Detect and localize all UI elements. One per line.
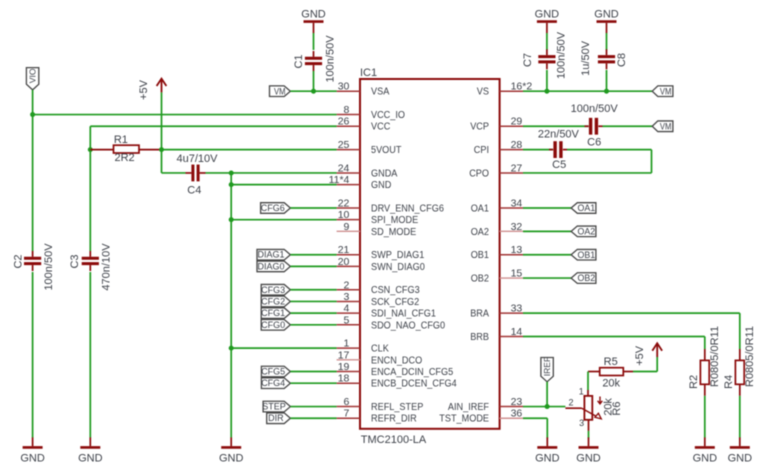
IC1 pin 1 CLK <box>337 338 390 355</box>
svg-text:OB1: OB1 <box>471 250 490 261</box>
svg-text:36: 36 <box>511 408 523 420</box>
ground below R6 <box>576 437 601 464</box>
wire +5V down to 5VOUT row <box>161 92 163 149</box>
svg-text:GND: GND <box>728 453 753 465</box>
svg-text:CPI: CPI <box>474 145 489 156</box>
supply +5V arrow (left) <box>138 79 166 100</box>
IC1 pin 2 CSN_CFG3 <box>337 279 420 296</box>
wire BRA <box>523 312 740 314</box>
svg-text:STEP: STEP <box>262 402 286 412</box>
capacitor C1 100n/50V <box>305 51 322 71</box>
net flag VM (left) <box>270 86 291 97</box>
wire +5V column down <box>161 150 163 173</box>
node junction R1 right / +5V <box>159 147 164 152</box>
IC1 pin 13 OB1 <box>471 244 523 261</box>
node junction GND row <box>229 182 234 187</box>
wire C3 to GND <box>89 272 91 438</box>
svg-text:CPO: CPO <box>469 168 489 179</box>
svg-text:SWN_DIAG0: SWN_DIAG0 <box>371 262 425 273</box>
svg-text:VM: VM <box>274 86 286 96</box>
IC1 pin 24 GNDA <box>337 162 398 179</box>
svg-text:DIAG0: DIAG0 <box>257 261 284 271</box>
ground above C1 <box>301 9 326 33</box>
node junction C1/VSA <box>311 89 316 94</box>
ground below R4 <box>728 437 753 464</box>
svg-text:IC1: IC1 <box>360 67 377 79</box>
svg-text:TST_MODE: TST_MODE <box>439 414 489 425</box>
svg-text:R1: R1 <box>114 134 128 146</box>
node junction SPI_MODE row <box>229 217 234 222</box>
node junction C7/VS <box>544 89 549 94</box>
svg-text:R5: R5 <box>604 356 618 368</box>
svg-text:VCP: VCP <box>470 122 489 133</box>
wire +5V to R5 row <box>656 357 658 372</box>
svg-text:VS: VS <box>477 87 489 98</box>
svg-text:19: 19 <box>338 361 350 373</box>
IC1 pin 30 VSA <box>337 81 390 98</box>
svg-text:OA2: OA2 <box>577 226 595 236</box>
svg-text:REFR_DIR: REFR_DIR <box>371 414 417 425</box>
net flag DIR <box>267 413 291 424</box>
net flag VM (VS row) <box>652 86 673 97</box>
IC1 pin 36 TST_MODE <box>439 408 523 425</box>
svg-text:R6: R6 <box>611 402 623 416</box>
net flag STEP <box>262 401 290 412</box>
ground below TST_MODE <box>535 437 560 464</box>
wire C8 to VS row <box>606 70 608 91</box>
svg-text:29: 29 <box>511 116 523 128</box>
wire GND column x231 <box>230 173 232 438</box>
wire TST_MODE down <box>546 418 548 438</box>
svg-text:R4: R4 <box>723 375 735 389</box>
svg-text:CFG4: CFG4 <box>261 378 285 388</box>
svg-text:VM: VM <box>660 121 672 131</box>
svg-text:GND: GND <box>78 453 103 465</box>
capacitor C2 <box>24 251 41 271</box>
svg-text:+5V: +5V <box>138 79 150 100</box>
svg-text:7: 7 <box>344 408 350 420</box>
svg-text:CFG0: CFG0 <box>261 320 285 330</box>
net flag CFG3 <box>261 284 290 295</box>
svg-text:SWP_DIAG1: SWP_DIAG1 <box>371 250 425 261</box>
svg-text:24: 24 <box>338 162 350 174</box>
node junction VIO/VCC_IO <box>30 112 35 117</box>
wire C7 to VS row <box>546 70 548 91</box>
svg-text:25: 25 <box>338 139 350 151</box>
wire R5 to +5V col <box>633 371 657 373</box>
svg-text:GND: GND <box>535 9 560 21</box>
wire VS row <box>523 90 652 92</box>
IC1 pin 3 SCK_CFG2 <box>337 291 420 308</box>
svg-text:10: 10 <box>338 209 350 221</box>
wire CFG1 to pin <box>290 312 336 314</box>
wire VCP to C6 <box>523 125 589 127</box>
svg-text:OA2: OA2 <box>471 227 490 238</box>
svg-text:3: 3 <box>344 291 350 303</box>
node junction C8/VS <box>604 89 609 94</box>
svg-text:BRA: BRA <box>470 309 489 320</box>
IC1 pin 26 VCC <box>337 116 391 133</box>
svg-text:DRV_ENN_CFG6: DRV_ENN_CFG6 <box>371 203 444 214</box>
svg-text:IREF: IREF <box>542 357 552 377</box>
wire AIN_IREF row <box>523 406 565 408</box>
wire SPI_MODE row <box>231 219 336 221</box>
svg-text:GND: GND <box>576 453 601 465</box>
wire CFG4 to pin <box>290 382 336 384</box>
IC1 pin 34 OA1 <box>471 198 523 215</box>
svg-text:OB2: OB2 <box>471 274 490 285</box>
svg-text:CFG2: CFG2 <box>261 296 285 306</box>
net flag VIO <box>26 68 38 90</box>
svg-text:13: 13 <box>511 244 523 256</box>
wire CPI loop down <box>651 150 653 173</box>
net flag CFG4 <box>261 378 290 389</box>
svg-text:30: 30 <box>338 81 350 93</box>
net flag DIAG0 <box>257 261 290 272</box>
svg-text:ENCA_DCIN_CFG5: ENCA_DCIN_CFG5 <box>371 367 454 378</box>
net flag CFG5 <box>261 366 290 377</box>
svg-text:21: 21 <box>338 244 350 256</box>
net flag IREF <box>541 357 553 382</box>
net flag OA2 <box>571 226 596 237</box>
svg-text:VIO: VIO <box>28 68 38 83</box>
svg-text:DIR: DIR <box>268 413 284 423</box>
node junction GNDA row <box>229 170 234 175</box>
wire 5VOUT row <box>162 149 337 151</box>
svg-text:2R2: 2R2 <box>115 152 135 164</box>
supply +5V arrow (right) <box>634 343 662 365</box>
svg-text:34: 34 <box>511 198 523 210</box>
svg-text:SPI_MODE: SPI_MODE <box>371 215 418 226</box>
wire C6 to VM <box>603 125 653 127</box>
wire BRB <box>523 335 705 337</box>
resistor R4 R0805/0R11 <box>723 326 756 396</box>
capacitor C5 22n/50V <box>538 128 580 171</box>
svg-text:27: 27 <box>511 162 523 174</box>
net flag OA1 <box>571 203 596 214</box>
wire VM to VSA pin <box>290 90 336 92</box>
wire OB2 <box>523 277 571 279</box>
wire CPO row <box>523 172 652 174</box>
svg-text:CSN_CFG3: CSN_CFG3 <box>371 285 420 296</box>
svg-text:26: 26 <box>338 116 350 128</box>
wire OA1 <box>523 207 571 209</box>
svg-text:2: 2 <box>568 398 573 408</box>
svg-text:6: 6 <box>344 396 350 408</box>
svg-text:ENCB_DCEN_CFG4: ENCB_DCEN_CFG4 <box>371 379 457 390</box>
IC1 pin 20 SWN_DIAG0 <box>337 256 426 273</box>
svg-text:OA1: OA1 <box>577 203 595 213</box>
wire OB1 <box>523 254 571 256</box>
IC1 pin 7 REFR_DIR <box>337 408 417 425</box>
svg-text:CFG6: CFG6 <box>261 203 285 213</box>
IC1 pin 22 DRV_ENN_CFG6 <box>337 198 445 215</box>
IC IC1 TMC2100-LA body <box>360 67 500 446</box>
ground below C3 <box>78 437 103 464</box>
wire C4 to junction <box>206 172 232 174</box>
svg-text:1: 1 <box>344 338 350 350</box>
wire R6 pin3 to GND <box>588 431 590 438</box>
svg-text:3: 3 <box>579 418 584 428</box>
net flag CFG2 <box>261 296 290 307</box>
wire R2 to GND <box>704 396 706 438</box>
node junction R1 left <box>88 147 93 152</box>
wire CFG6 to pin <box>290 207 336 209</box>
IC1 pin 5 SDO_NAO_CFG0 <box>337 314 446 331</box>
svg-text:R0805/0R11: R0805/0R11 <box>744 326 756 387</box>
capacitor C3 <box>82 251 99 271</box>
svg-text:8: 8 <box>344 104 350 116</box>
wire CFG2 to pin <box>290 300 336 302</box>
svg-text:CFG3: CFG3 <box>261 285 285 295</box>
svg-text:1: 1 <box>579 387 584 397</box>
svg-text:R0805/0R11: R0805/0R11 <box>709 326 721 387</box>
wire R4 to GND <box>739 396 741 438</box>
svg-text:C6: C6 <box>587 136 601 148</box>
svg-text:GND: GND <box>371 180 391 191</box>
svg-text:SD_MODE: SD_MODE <box>371 227 417 238</box>
svg-text:OA1: OA1 <box>471 203 490 214</box>
IC1 pin 25 5VOUT <box>337 139 402 156</box>
net flag DIAG1 <box>257 249 290 260</box>
svg-text:CFG1: CFG1 <box>261 308 285 318</box>
wire STEP to pin <box>290 406 336 408</box>
wire CFG5 to pin <box>290 371 336 373</box>
wire IREF down <box>546 382 548 407</box>
svg-text:DIAG1: DIAG1 <box>257 250 284 260</box>
wire C1 to VSA row <box>313 71 315 91</box>
svg-text:VCC: VCC <box>371 122 390 133</box>
svg-text:C2: C2 <box>12 254 24 268</box>
resistor R5 20k <box>588 356 633 390</box>
trimmer R6 20k <box>565 387 622 431</box>
IC1 pin 9 SD_MODE <box>337 221 417 238</box>
svg-text:17: 17 <box>338 349 350 361</box>
svg-text:100n/50V: 100n/50V <box>555 31 567 79</box>
ground below R2 <box>693 437 718 464</box>
wire GNDA row <box>231 172 336 174</box>
wire CFG0 to pin <box>290 324 336 326</box>
svg-text:BRB: BRB <box>470 332 489 343</box>
svg-text:GND: GND <box>301 9 326 21</box>
svg-text:5VOUT: 5VOUT <box>371 145 401 156</box>
svg-text:C8: C8 <box>616 53 628 67</box>
svg-text:5: 5 <box>344 314 350 326</box>
wire R5 left down to R6 <box>587 372 589 390</box>
svg-text:SDO_NAO_CFG0: SDO_NAO_CFG0 <box>371 320 445 331</box>
svg-text:+5V: +5V <box>634 345 646 366</box>
IC1 pin 11*4 GND <box>329 174 392 191</box>
IC1 pin 33 BRA <box>470 303 523 320</box>
svg-text:SDI_NAI_CFG1: SDI_NAI_CFG1 <box>371 309 436 320</box>
resistor R1 2R2 <box>90 134 161 164</box>
capacitor C6 100n/50V <box>571 103 619 148</box>
net flag VM (VCP row) <box>652 121 673 132</box>
svg-text:VCC_IO: VCC_IO <box>371 110 405 121</box>
IC1 pin 16*2 VS <box>477 81 533 98</box>
svg-text:20k: 20k <box>602 378 620 390</box>
wire C2 to GND <box>32 272 34 438</box>
capacitor C8 1u/50V <box>598 49 615 69</box>
svg-text:GND: GND <box>20 453 45 465</box>
IC1 pin 6 REFL_STEP <box>337 396 424 413</box>
svg-text:C5: C5 <box>552 159 566 171</box>
svg-text:C4: C4 <box>187 185 201 197</box>
wire BRB down <box>704 336 706 349</box>
svg-text:28: 28 <box>511 139 523 151</box>
net flag OB1 <box>571 249 596 260</box>
IC1 pin 29 VCP <box>470 116 523 133</box>
svg-text:C7: C7 <box>522 53 534 67</box>
wire VCC corner down <box>89 126 91 149</box>
capacitor C7 100n/50V <box>538 49 555 69</box>
svg-text:GNDA: GNDA <box>371 168 398 179</box>
wire C5 right <box>567 149 652 151</box>
svg-text:22n/50V: 22n/50V <box>538 128 580 140</box>
ground below column x231 <box>219 437 244 464</box>
svg-text:32: 32 <box>511 221 523 233</box>
wire GND to C7 <box>546 33 548 50</box>
wire VCC_IO row <box>33 114 337 116</box>
svg-text:CLK: CLK <box>371 344 389 355</box>
node junction IREF/AIN <box>545 404 550 409</box>
capacitor C4 4u7/10V <box>186 165 206 182</box>
IC1 pin 4 SDI_NAI_CFG1 <box>337 303 437 320</box>
svg-text:4: 4 <box>344 303 350 315</box>
IC1 pin 21 SWP_DIAG1 <box>337 244 425 261</box>
IC1 pin 18 ENCB_DCEN_CFG4 <box>337 373 457 390</box>
svg-text:GND: GND <box>535 453 560 465</box>
svg-text:18: 18 <box>338 373 350 385</box>
wire down to C3 <box>89 150 91 251</box>
svg-text:OB2: OB2 <box>577 273 595 283</box>
wire corner to C4 <box>162 172 186 174</box>
ground above C8 <box>594 9 619 33</box>
svg-text:9: 9 <box>344 221 350 233</box>
svg-text:REFL_STEP: REFL_STEP <box>371 402 424 413</box>
ground above C7 <box>535 9 560 33</box>
IC1 pin 8 VCC_IO <box>337 104 406 121</box>
svg-text:GND: GND <box>693 453 718 465</box>
IC1 pin 15 OB2 <box>471 268 523 285</box>
node junction CLK row <box>229 346 234 351</box>
svg-text:C3: C3 <box>69 254 81 268</box>
wire CPI to C5 <box>523 149 553 151</box>
wire OA2 <box>523 230 571 232</box>
IC1 pin 27 CPO <box>469 162 523 179</box>
svg-text:CFG5: CFG5 <box>261 367 285 377</box>
svg-text:R2: R2 <box>688 375 700 389</box>
svg-text:AIN_IREF: AIN_IREF <box>448 402 489 413</box>
IC1 pin 17 ENCN_DCO <box>337 349 423 366</box>
IC1 pin 28 CPI <box>474 139 523 156</box>
svg-text:100n/50V: 100n/50V <box>571 103 619 115</box>
svg-text:470n/10V: 470n/10V <box>101 243 113 291</box>
svg-text:22: 22 <box>338 198 350 210</box>
net flag OB2 <box>571 273 596 284</box>
svg-text:GND: GND <box>219 453 244 465</box>
svg-text:TMC2100-LA: TMC2100-LA <box>361 434 427 446</box>
wire CLK row <box>231 347 336 349</box>
wire DIAG1 to pin <box>290 254 336 256</box>
svg-text:4u7/10V: 4u7/10V <box>177 153 219 165</box>
net flag CFG1 <box>261 308 290 319</box>
IC1 pin 23 AIN_IREF <box>448 396 523 413</box>
IC1 pin 10 SPI_MODE <box>337 209 419 226</box>
svg-text:100n/50V: 100n/50V <box>43 243 55 291</box>
svg-text:20: 20 <box>338 256 350 268</box>
svg-text:C1: C1 <box>293 54 305 68</box>
svg-text:1u/50V: 1u/50V <box>580 40 592 76</box>
svg-text:14: 14 <box>511 326 523 338</box>
IC1 pin 14 BRB <box>470 326 523 343</box>
wire BRA down <box>739 313 741 349</box>
wire DIAG0 to pin <box>290 265 336 267</box>
wire GND row <box>231 184 336 186</box>
wire DIR to pin <box>290 417 336 419</box>
svg-text:2: 2 <box>344 279 350 291</box>
wire GND to C1 <box>313 33 315 50</box>
svg-text:23: 23 <box>511 396 523 408</box>
IC1 pin 19 ENCA_DCIN_CFG5 <box>337 361 454 378</box>
svg-text:15: 15 <box>511 268 523 280</box>
svg-text:33: 33 <box>511 303 523 315</box>
svg-text:100n/50V: 100n/50V <box>324 35 336 83</box>
svg-text:OB1: OB1 <box>577 250 595 260</box>
wire VCC row <box>90 125 336 127</box>
wire CFG3 to pin <box>290 289 336 291</box>
wire VIO down to C2 <box>32 115 34 251</box>
wire TST_MODE row <box>523 417 547 419</box>
ground below C2 <box>20 437 45 464</box>
net flag CFG0 <box>261 320 290 331</box>
resistor R2 R0805/0R11 <box>688 326 721 396</box>
svg-text:SCK_CFG2: SCK_CFG2 <box>371 297 420 308</box>
wire GND to C8 <box>606 33 608 50</box>
wire VIO to junction <box>32 90 34 114</box>
svg-text:GND: GND <box>594 9 619 21</box>
IC1 pin 32 OA2 <box>471 221 523 238</box>
net flag CFG6 <box>261 203 291 214</box>
svg-text:ENCN_DCO: ENCN_DCO <box>371 355 422 366</box>
svg-text:VSA: VSA <box>371 87 390 98</box>
svg-text:VM: VM <box>660 86 672 96</box>
